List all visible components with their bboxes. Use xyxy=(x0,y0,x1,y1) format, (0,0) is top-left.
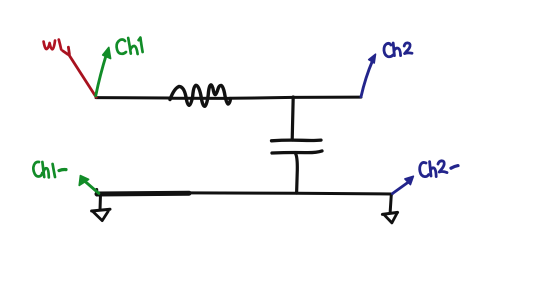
ground left (stem) xyxy=(99,195,103,211)
arrow W1 (red, from node A up-left) xyxy=(63,47,96,97)
capacitor C bottom plate xyxy=(272,151,322,153)
label Ch2- (blue) xyxy=(420,161,458,177)
wire bottom horizontal right segment xyxy=(189,193,392,194)
arrow Ch1- (green, from bottom-left node up-left) xyxy=(79,176,99,194)
ground left (triangle vee) xyxy=(93,211,108,220)
ground right (triangle top bar) xyxy=(382,212,397,214)
ground right (triangle vee) xyxy=(384,213,397,223)
wire bottom horizontal thick left segment xyxy=(97,191,189,197)
label W1 (red) xyxy=(44,40,62,50)
wire capacitor bottom stem xyxy=(296,154,298,194)
node left bottom corner jog xyxy=(95,190,98,196)
arrow Ch2 (blue, from top wire right end up-right) xyxy=(361,54,376,97)
capacitor C top plate xyxy=(272,138,322,142)
arrow Ch2- (blue, from bottom-right node up-right) xyxy=(393,176,414,193)
label Ch2 (blue) xyxy=(384,43,412,57)
wire capacitor top stem xyxy=(292,97,293,140)
wire under resistor xyxy=(170,97,230,100)
arrow Ch1 (green, from node A up-right) xyxy=(96,47,111,95)
resistor R (scribbled coil on top wire) xyxy=(170,85,231,107)
wire top horizontal (node A to Ch2 corner) xyxy=(96,97,361,98)
ground right (stem) xyxy=(390,195,391,212)
ground left (triangle top bar) xyxy=(92,209,110,211)
label Ch1 (green) xyxy=(117,38,143,54)
label Ch1- (green) xyxy=(33,162,66,177)
